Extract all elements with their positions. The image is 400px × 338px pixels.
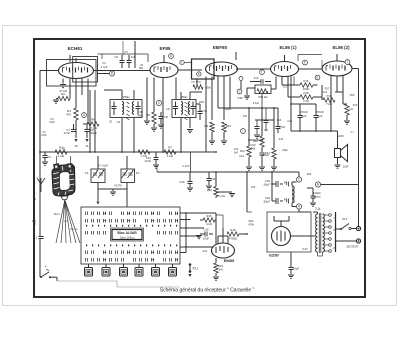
wire V7 to TA: [291, 235, 316, 237]
TA primary top lead: [317, 212, 319, 214]
svg-text:1Ω: 1Ω: [349, 107, 353, 111]
vertical x274: [273, 108, 275, 148]
volume pot resistor: [257, 89, 268, 93]
node 7 circle: [345, 60, 350, 65]
capacitor C10: [160, 112, 162, 116]
speaker: [335, 149, 341, 158]
arrow terminal 10: [74, 139, 77, 142]
svg-text:47pF: 47pF: [41, 134, 47, 137]
wire to speaker: [337, 131, 339, 149]
wire EL86-1 pin4: [293, 77, 295, 86]
trimmer F1a: [93, 173, 97, 175]
h wire y104: [291, 103, 316, 105]
ferrite cadre coil: [52, 165, 75, 197]
T1 primary coil: [122, 102, 124, 115]
wire V1 grid to antenna rail: [40, 70, 59, 72]
capacitor C11: [199, 108, 201, 111]
push button 3: [123, 264, 125, 268]
capacitor C14: [189, 172, 191, 181]
tube V6 EM85: [212, 243, 235, 258]
wire el2 anode link: [321, 60, 323, 69]
svg-text:7: 7: [347, 60, 349, 64]
svg-text:F: F: [304, 61, 306, 65]
IF transformer T2 box: [172, 100, 196, 118]
AGC bus wire: [40, 151, 216, 153]
wire terminal2: [336, 240, 357, 242]
wire pot left: [247, 87, 255, 89]
wire pot bottom drop: [261, 94, 263, 109]
cap under TA: [290, 252, 292, 267]
push button 2: [105, 264, 107, 268]
wire node C up: [298, 172, 300, 177]
svg-text:R4: R4: [140, 110, 144, 114]
wire T2 secondary top: [189, 92, 191, 100]
wire top stub x123: [122, 41, 124, 55]
heater wire y54: [98, 53, 149, 55]
svg-text:C15: C15: [203, 228, 209, 232]
svg-text:47 kΩ: 47 kΩ: [59, 89, 68, 93]
wire bloc out 2: [180, 219, 191, 221]
svg-text:R7: R7: [168, 146, 172, 150]
wire T1 primary bottom: [121, 118, 123, 153]
capacitor C14b: [208, 172, 210, 178]
wire V6 pin up: [227, 236, 229, 244]
svg-text:(C): (C): [283, 85, 287, 89]
wire T1 secondary bottom: [133, 118, 135, 153]
svg-text:8µF: 8µF: [302, 114, 307, 118]
node I circle: [241, 129, 246, 134]
wire vertical x216: [215, 213, 217, 247]
bloc clavier outline: [81, 207, 180, 264]
EZ80 box: [267, 212, 311, 252]
wire bloc out 1: [180, 212, 216, 214]
node dot circle: [239, 77, 243, 81]
capacitor C7: [73, 124, 75, 129]
ground under speaker: [337, 158, 339, 165]
TA screen bar: [335, 212, 337, 252]
T1 cap right: [136, 107, 141, 109]
svg-text:C3: C3: [102, 61, 106, 65]
diode section box: [192, 59, 215, 79]
resistor R7: [164, 150, 176, 154]
svg-text:ECH81: ECH81: [68, 46, 83, 51]
volume pot box: [255, 85, 271, 94]
wire V2 pin2 long: [162, 78, 164, 153]
svg-text:C25: C25: [251, 186, 256, 189]
svg-text:R13: R13: [277, 119, 282, 122]
h wire y108: [218, 107, 278, 109]
wire V3 pin2: [211, 77, 213, 121]
wire V5 top stub: [336, 54, 338, 61]
wire top stub x135: [134, 41, 136, 55]
push button 4: [138, 264, 140, 268]
svg-text:500 kΩ: 500 kΩ: [259, 95, 268, 99]
svg-text:R10: R10: [226, 124, 232, 128]
svg-text:200pF: 200pF: [225, 108, 232, 111]
bloc contact rows: [85, 212, 87, 216]
svg-text:EZ80: EZ80: [269, 253, 279, 258]
resistor R2: [58, 96, 70, 100]
wire node A down: [298, 209, 300, 212]
wire V5 pin3: [342, 76, 344, 104]
IF transformer T1 box: [110, 100, 142, 118]
svg-text:10nF: 10nF: [203, 237, 210, 241]
wire V3 heater stub: [235, 52, 237, 60]
padder box F1: [91, 169, 105, 183]
capacitor C2: [44, 152, 46, 155]
wire V1 pin3: [75, 79, 77, 109]
svg-text:C13: C13: [239, 154, 244, 158]
ground return wire: [56, 277, 58, 281]
tube V3 EBF80: [206, 62, 238, 76]
T2 secondary coil: [188, 102, 190, 115]
svg-text:R18: R18: [230, 228, 236, 232]
node B2 circle: [315, 182, 320, 187]
svg-text:50µF: 50µF: [264, 182, 271, 186]
svg-text:INT.: INT.: [342, 217, 348, 221]
TA primary winding: [316, 214, 318, 252]
svg-text:R13: R13: [265, 151, 271, 155]
mains terminal 2: [356, 239, 360, 243]
wire heater stub2: [134, 55, 136, 68]
coupling cap C20: [315, 104, 317, 115]
wire V6 grid up: [217, 236, 219, 244]
svg-text:H.P.: H.P.: [343, 165, 349, 169]
dot filter: [271, 183, 273, 185]
wire bloc out 5: [180, 246, 216, 248]
bloc label box: [111, 228, 144, 241]
wire box1 bottom right run: [94, 90, 96, 152]
svg-text:F1: F1: [85, 171, 89, 175]
svg-text:25µF: 25µF: [282, 149, 288, 152]
tube V4 EL86 no1: [271, 62, 299, 77]
wire V3 pin1: [205, 77, 207, 153]
vertical x266: [265, 108, 267, 120]
box around ECH81 left: [47, 60, 97, 87]
wire J vertical: [240, 81, 242, 89]
wire x247 join: [247, 211, 252, 213]
svg-text:C21: C21: [323, 91, 328, 94]
svg-text:C14: C14: [211, 177, 216, 181]
wire R3 down: [75, 120, 77, 138]
svg-text:P19: P19: [327, 94, 332, 98]
tube V1 ECH81: [59, 63, 94, 79]
coil lead wires fan: [56, 200, 65, 243]
svg-text:P.20: P.20: [353, 104, 358, 107]
svg-text:455kc: 455kc: [181, 95, 189, 99]
node V circle: [156, 100, 161, 105]
resistor R15: [203, 218, 215, 222]
wire R2 left to ground: [56, 98, 58, 100]
T2 cap left: [173, 107, 178, 109]
svg-text:500-470Ω: 500-470Ω: [191, 82, 201, 84]
resistor R19: [215, 258, 217, 263]
svg-text:B: B: [111, 72, 113, 76]
trimmer F2b: [129, 173, 133, 175]
svg-text:C1: C1: [33, 236, 37, 240]
svg-text:47nF: 47nF: [64, 131, 71, 135]
wire C8 down: [86, 132, 88, 139]
svg-text:pF: pF: [33, 223, 36, 226]
svg-text:R11: R11: [240, 149, 245, 153]
filter choke coil: [292, 186, 294, 203]
TA secondary winding: [323, 214, 325, 252]
wire T2 primary bottom: [180, 118, 182, 153]
svg-text:EL86 (1): EL86 (1): [279, 45, 297, 50]
bloc contact dot rows: [86, 225, 87, 227]
wire V4 to V5: [299, 68, 323, 70]
node J circle: [237, 89, 242, 94]
node G circle: [82, 113, 87, 118]
resistor P18: [288, 96, 300, 98]
svg-text:0,5M: 0,5M: [237, 97, 242, 100]
node K circle: [197, 72, 201, 76]
wire filter cap rail: [271, 172, 273, 201]
svg-text:F2: F2: [136, 171, 140, 175]
svg-text:R20: R20: [249, 219, 254, 223]
svg-text:7 kΩ: 7 kΩ: [303, 99, 309, 103]
wire V4 top stub: [284, 55, 286, 62]
wire box1 bottom left run: [89, 90, 91, 152]
svg-text:470k: 470k: [248, 222, 254, 226]
svg-text:OC·PO: OC·PO: [114, 185, 122, 188]
wire bloc vertical a: [185, 213, 187, 253]
trimmer F2a: [123, 173, 127, 175]
capacitor C17: [260, 153, 265, 155]
node E circle: [315, 75, 320, 80]
svg-text:S: S: [170, 54, 172, 58]
svg-text:47nF: 47nF: [279, 125, 286, 129]
resistor R11: [247, 146, 251, 157]
resistor R3: [74, 108, 78, 120]
T1 core: [127, 102, 130, 120]
capacitor 100uF depol: [312, 188, 314, 196]
wire V4 anode down: [290, 77, 292, 132]
wire F1 to block: [97, 189, 99, 201]
node F2 circle: [303, 60, 308, 65]
svg-text:dépol: dépol: [314, 194, 321, 198]
wire F2 top: [126, 163, 128, 169]
resistor under diode box: [196, 79, 198, 86]
svg-text:P20: P20: [350, 94, 355, 97]
bloc contact middle row: [85, 231, 87, 235]
coupling cap C19: [299, 104, 301, 115]
svg-text:Blanc: Blanc: [54, 212, 61, 216]
node F circle: [260, 70, 265, 75]
wire bus stub left: [156, 165, 158, 172]
wire T1 secondary top: [133, 90, 135, 100]
wire V2 pin1: [153, 78, 155, 113]
ground under V1: [60, 85, 66, 88]
output line to speaker: [291, 130, 338, 132]
svg-text:50µF: 50µF: [264, 199, 271, 203]
resistor R10: [222, 122, 226, 132]
wire bus drop x247: [246, 172, 248, 212]
wire pot to V4 grid: [271, 88, 276, 90]
resistor R6: [87, 122, 99, 126]
screen bus wire: [157, 171, 272, 173]
wire bus drop x216: [215, 172, 217, 187]
wire V3 pin4: [223, 77, 225, 121]
svg-text:C·AVC: C·AVC: [183, 165, 190, 168]
coil top tab left: [54, 164, 60, 171]
capacitor C12: [155, 152, 157, 157]
T1 secondary coil: [132, 102, 134, 115]
capacitor C15: [200, 233, 205, 235]
svg-text:R14: R14: [251, 143, 256, 147]
wire V5 pin1: [330, 76, 332, 100]
svg-text:R16: R16: [207, 188, 213, 192]
wire V2 to V3: [178, 69, 202, 71]
push button 5: [155, 264, 157, 268]
svg-text:1nF: 1nF: [166, 108, 171, 111]
svg-text:Rouge: Rouge: [70, 227, 78, 231]
h wire y140: [249, 139, 262, 141]
svg-text:EL86 (2): EL86 (2): [332, 45, 350, 50]
wire antenna bus join: [39, 70, 41, 72]
vertical x262: [261, 108, 263, 136]
wire bloc out 6: [180, 252, 186, 254]
svg-text:R15: R15: [206, 214, 212, 218]
wire F1 bottom: [97, 183, 99, 190]
ground under R8: [153, 124, 155, 127]
wire V1 pin4: [81, 79, 83, 96]
svg-text:5nF: 5nF: [234, 151, 239, 154]
wire V2 pin3: [175, 78, 177, 100]
svg-text:22nF: 22nF: [145, 159, 152, 163]
T2 cap right: [191, 107, 196, 109]
mains terminal 1: [356, 226, 360, 230]
wire V1 pin2: [69, 79, 71, 99]
svg-text:C19: C19: [287, 120, 292, 123]
wire T2 primary top: [180, 92, 182, 100]
svg-text:220V: 220V: [338, 134, 344, 138]
svg-text:F: F: [261, 70, 263, 74]
wire V3 pin5: [229, 77, 231, 109]
svg-text:0,1µF: 0,1µF: [253, 102, 260, 105]
wire R16 to ground: [215, 197, 217, 199]
svg-text:Type 103ou: Type 103ou: [119, 235, 134, 239]
wire bloc out 3: [180, 227, 204, 229]
svg-text:1nF: 1nF: [254, 76, 259, 80]
svg-text:T.A.: T.A.: [315, 207, 321, 211]
svg-text:8µF: 8µF: [318, 114, 323, 118]
capacitor C5: [121, 55, 123, 60]
resistor R12: [260, 136, 264, 147]
node S circle: [169, 54, 174, 59]
svg-text:1 kΩ: 1 kΩ: [58, 154, 65, 158]
svg-text:EF85: EF85: [160, 46, 171, 51]
svg-text:1MΩ: 1MΩ: [199, 101, 204, 104]
svg-text:1 kΩ: 1 kΩ: [167, 154, 174, 158]
node C circle: [296, 177, 301, 182]
node A circle: [296, 204, 301, 209]
svg-text:56k: 56k: [251, 146, 256, 150]
svg-text:R22: R22: [307, 173, 312, 176]
svg-text:47nF: 47nF: [179, 180, 185, 184]
svg-text:4,7pF: 4,7pF: [101, 65, 108, 69]
svg-text:EM85: EM85: [224, 258, 235, 263]
svg-text:C24: C24: [202, 250, 207, 253]
TA bottom lead: [322, 252, 324, 256]
wire V6 anode up: [222, 228, 224, 244]
svg-text:4 kΩ: 4 kΩ: [206, 222, 212, 226]
resistor P16: [282, 84, 300, 86]
svg-text:E: E: [316, 76, 318, 80]
vertical x249: [248, 108, 250, 146]
capacitor C16b: [256, 120, 258, 126]
wire heater V2: [146, 78, 148, 121]
svg-text:C5: C5: [114, 55, 118, 59]
coil top leads: [56, 156, 58, 164]
wire V1 to V2: [94, 70, 151, 72]
wire V5 pin2: [336, 76, 338, 92]
box around ECH81 right: [73, 57, 98, 83]
wire heater stub1: [69, 55, 71, 62]
svg-text:1 kΩ: 1 kΩ: [219, 194, 225, 198]
resistor R8: [152, 112, 156, 124]
svg-text:1MΩ: 1MΩ: [137, 113, 143, 117]
svg-text:50µF: 50µF: [293, 267, 300, 271]
resistor R18: [227, 232, 239, 236]
capacitor C18: [277, 108, 279, 126]
wire V5 to HT rail: [352, 68, 359, 70]
wire g2 top: [298, 54, 322, 56]
svg-text:4,7–21pF: 4,7–21pF: [98, 165, 109, 168]
svg-text:Vert: Vert: [64, 219, 69, 223]
tube V7 EZ80: [272, 227, 291, 246]
schematic frame: [34, 39, 365, 297]
capacitor C8: [86, 124, 88, 129]
h wire y120: [255, 119, 274, 121]
capacitor C6: [128, 55, 130, 60]
wire F2 to block: [126, 189, 128, 207]
svg-text:10: 10: [74, 144, 78, 148]
trimmer F1b: [99, 173, 103, 175]
wire V1 pin5: [87, 79, 89, 125]
V7 internals: [277, 231, 285, 242]
resistor R13: [272, 148, 276, 159]
svg-text:P16: P16: [304, 79, 309, 83]
wire to node B: [98, 73, 109, 75]
wire EM85 link up: [222, 215, 224, 228]
coil top tab right: [67, 164, 73, 170]
V6 internals: [216, 246, 228, 253]
wire T1 primary top: [121, 90, 123, 100]
wire F2 bottom: [126, 183, 128, 190]
wire V3 pin3: [217, 77, 219, 109]
svg-text:·: ·: [240, 77, 241, 81]
padder box F2: [121, 169, 135, 183]
HT rail vertical: [358, 69, 360, 228]
T1 cap left: [112, 107, 117, 109]
antenna rail vertical: [39, 71, 41, 278]
wire V4 pin3: [287, 77, 289, 98]
wire choke bottom: [291, 203, 293, 207]
T2 core: [185, 102, 188, 120]
svg-text:P.U.: P.U.: [193, 267, 199, 271]
capacitor C22: [272, 183, 276, 185]
svg-text:2nF: 2nF: [279, 137, 284, 141]
svg-text:1M: 1M: [219, 267, 224, 271]
resistor R9: [210, 122, 214, 132]
svg-text:P17: P17: [325, 87, 330, 91]
svg-text:EBF80: EBF80: [213, 45, 228, 50]
svg-text:L: L: [181, 61, 183, 65]
svg-text:A: A: [33, 197, 36, 201]
wire y92 link: [196, 91, 202, 93]
wire V1 top stub: [75, 58, 77, 63]
